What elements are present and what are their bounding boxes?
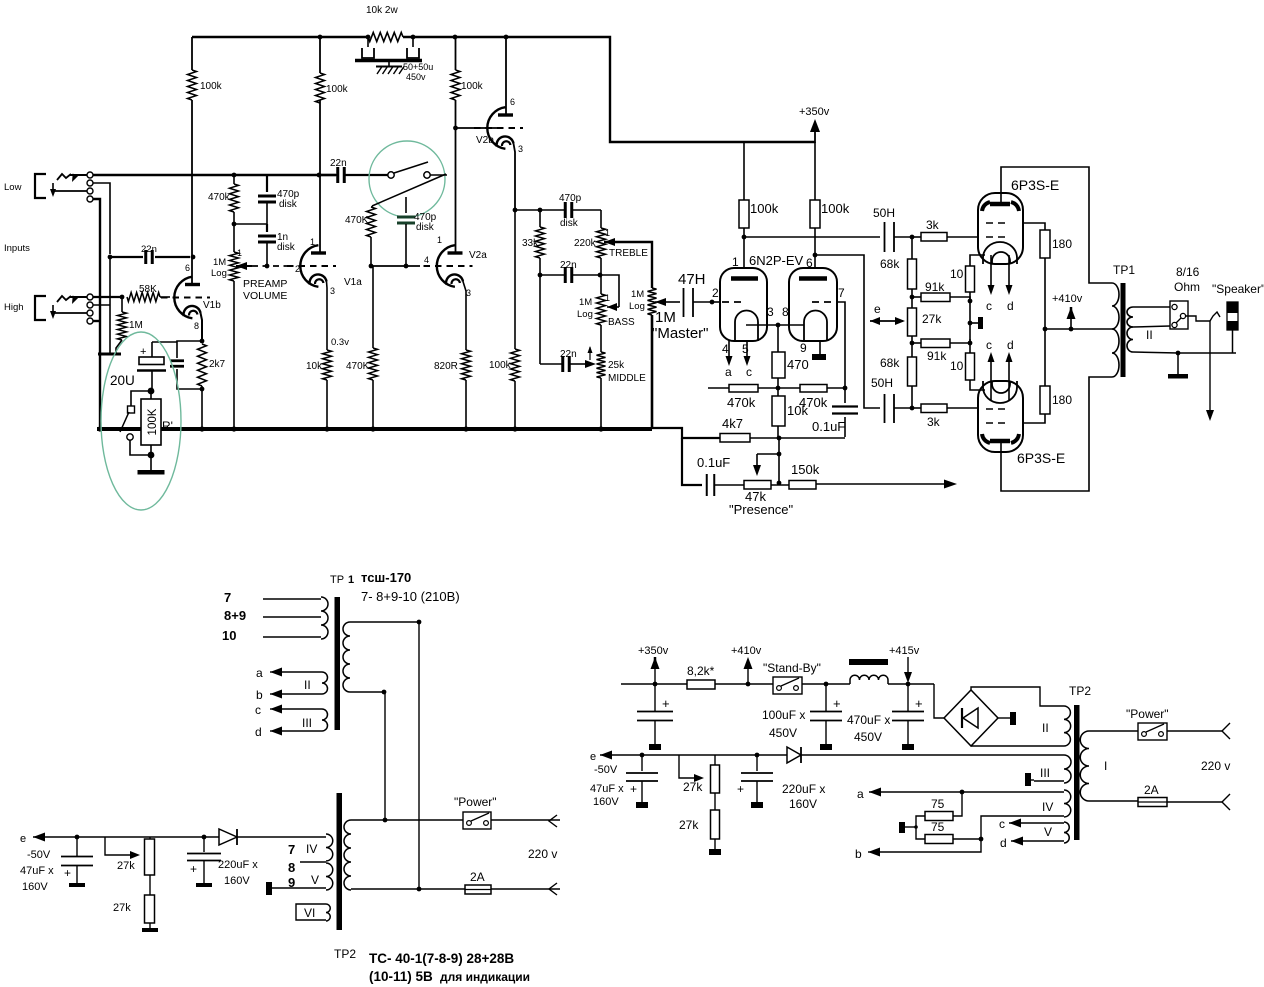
- svg-text:d: d: [1000, 836, 1007, 850]
- svg-text:a: a: [857, 787, 864, 801]
- svg-text:50H: 50H: [873, 206, 895, 220]
- svg-text:+350v: +350v: [799, 106, 830, 118]
- resistor 8,2k*: [687, 680, 715, 689]
- svg-text:+415v: +415v: [889, 645, 920, 657]
- capacitor 47uF left: [75, 835, 80, 840]
- wire V1a cathode: [326, 282, 329, 351]
- svg-text:27k: 27k: [117, 860, 135, 872]
- capacitor 22n input: [108, 255, 113, 260]
- svg-text:disk: disk: [279, 199, 298, 210]
- wire speaker hot: [1186, 316, 1211, 321]
- svg-text:75: 75: [931, 797, 945, 811]
- svg-text:6N2P-EV: 6N2P-EV: [749, 253, 804, 268]
- potentiometer 47k Presence: [744, 481, 771, 490]
- wire PI cathodes: [746, 324, 804, 326]
- power +410v psu: [746, 682, 751, 687]
- svg-text:5: 5: [742, 342, 749, 356]
- wire mains hot psu: [1089, 730, 1138, 732]
- annotation ellipse (green): [101, 332, 181, 510]
- rectifier bridge: [934, 684, 944, 718]
- wire OT secondary top: [1133, 306, 1171, 308]
- svg-text:470K: 470K: [345, 215, 369, 226]
- svg-text:47uF x: 47uF x: [590, 783, 624, 795]
- svg-text:Log: Log: [577, 309, 593, 320]
- svg-text:III: III: [302, 716, 312, 730]
- potentiometer 25k MIDDLE: [597, 352, 606, 378]
- capacitor cathode bypass: [200, 339, 205, 344]
- svg-text:a: a: [725, 365, 732, 379]
- wire V1b cathode: [201, 313, 203, 341]
- svg-text:1: 1: [437, 235, 442, 245]
- winding V psu: [1064, 822, 1069, 843]
- svg-text:33k: 33k: [522, 238, 539, 249]
- svg-text:0.3v: 0.3v: [331, 337, 349, 348]
- svg-text:470K: 470K: [346, 361, 370, 372]
- svg-text:91k: 91k: [925, 280, 945, 294]
- svg-text:220uF x: 220uF x: [218, 859, 258, 871]
- potentiometer 27k psu: [679, 755, 694, 778]
- triode V1a: [300, 245, 318, 287]
- svg-text:10: 10: [950, 359, 964, 373]
- svg-text:160V: 160V: [789, 797, 817, 811]
- svg-text:180: 180: [1052, 237, 1072, 251]
- wire lower plate: [1001, 377, 1112, 491]
- svg-text:100k: 100k: [750, 201, 779, 216]
- winding II TP1 detail: [322, 672, 328, 694]
- svg-text:-50V: -50V: [594, 764, 618, 776]
- svg-text:Low: Low: [4, 182, 22, 193]
- svg-text:220k: 220k: [574, 238, 597, 249]
- svg-text:450V: 450V: [854, 730, 882, 744]
- capacitor 470p disk switch: [405, 197, 407, 213]
- core TP1 detail: [335, 597, 341, 730]
- svg-text:22n: 22n: [330, 158, 347, 169]
- resistor 10 lower cathode: [969, 323, 971, 343]
- wire V2b plate to rail: [505, 37, 507, 116]
- wire b arrow psu: [868, 848, 880, 857]
- svg-text:6: 6: [806, 256, 813, 270]
- wire presence feed: [652, 428, 720, 438]
- capacitor 470p disk treble: [540, 209, 565, 211]
- svg-text:58K: 58K: [139, 284, 157, 295]
- wire ground bus: [97, 427, 652, 431]
- switch mod: [131, 391, 151, 406]
- wire mains bottom: [351, 888, 560, 890]
- wire PI plate 1: [743, 142, 745, 200]
- wire V1a plate to 100k: [319, 100, 321, 254]
- svg-text:9: 9: [800, 341, 807, 355]
- resistor 10k V1a cathode: [323, 350, 332, 380]
- wire bass to middle: [600, 325, 602, 352]
- wire -50V rail psu: [621, 754, 1064, 756]
- svg-text:22n: 22n: [560, 349, 577, 360]
- wire presence wiper: [778, 438, 780, 485]
- capacitor 50H lower: [884, 394, 886, 423]
- wire V1b plate to 100k: [191, 100, 193, 284]
- ground (hatched): [388, 62, 390, 66]
- svg-text:4k7: 4k7: [722, 416, 743, 431]
- ground mod: [138, 470, 165, 475]
- svg-text:7: 7: [224, 590, 231, 605]
- resistor 75 upper: [953, 792, 962, 816]
- resistor 10 upper cathode: [970, 255, 985, 266]
- svg-text:75: 75: [931, 820, 945, 834]
- svg-text:"Stand-By": "Stand-By": [763, 661, 821, 675]
- triode V2b cathode follower: [487, 107, 505, 149]
- winding IV psu: [1064, 790, 1071, 817]
- potentiometer 27k left: [105, 837, 130, 855]
- svg-text:10k 2w: 10k 2w: [366, 5, 398, 16]
- winding 210V TP1 detail: [343, 622, 350, 692]
- resistor 180 lower: [1040, 386, 1050, 414]
- wire IV bottom psu: [880, 816, 1064, 852]
- switch Power psu: [1138, 723, 1167, 740]
- svg-text:6: 6: [510, 97, 515, 107]
- wire coupling lower: [813, 253, 818, 258]
- wire heater pin4: [728, 341, 730, 358]
- svg-text:d: d: [255, 725, 262, 739]
- wire left bias: [150, 836, 190, 838]
- svg-text:3: 3: [767, 305, 774, 319]
- capacitor 220uF psu: [755, 753, 760, 758]
- winding primary TP2 detail: [344, 820, 351, 890]
- wire bright junction: [232, 222, 237, 227]
- svg-text:1M: 1M: [129, 320, 143, 331]
- resistor 75 lower: [953, 838, 981, 840]
- capacitor 0.1uF presence: [706, 474, 708, 496]
- svg-text:22n: 22n: [560, 260, 577, 271]
- svg-text:10: 10: [950, 267, 964, 281]
- svg-text:+: +: [630, 782, 637, 796]
- triode V2a: [437, 245, 455, 287]
- wire NFB tap: [1209, 321, 1211, 412]
- wire to diode left: [190, 836, 219, 838]
- capacitor 100uF: [825, 684, 827, 711]
- wire B+ psu rail: [621, 683, 687, 685]
- svg-text:100k: 100k: [326, 84, 349, 95]
- svg-text:1: 1: [605, 228, 610, 238]
- jack J1 Low: [35, 174, 46, 198]
- svg-text:50H: 50H: [871, 376, 893, 390]
- svg-text:IV: IV: [306, 842, 317, 856]
- capacitor 470uF: [907, 684, 909, 711]
- svg-text:disk: disk: [560, 218, 579, 229]
- svg-text:Log: Log: [629, 301, 645, 312]
- svg-text:1M: 1M: [655, 309, 676, 326]
- winding V TP2 detail: [326, 863, 333, 890]
- wire volume wiper to V1a grid: [252, 265, 290, 267]
- junction V1b plate node: [191, 255, 196, 260]
- svg-text:c: c: [986, 299, 992, 313]
- svg-text:27k: 27k: [113, 902, 131, 914]
- jack J2 High: [35, 296, 46, 320]
- wire NFB to speaker: [816, 483, 947, 485]
- svg-text:для индикации: для индикации: [440, 970, 530, 984]
- wire V2a cathode: [463, 282, 466, 351]
- svg-text:8,2k*: 8,2k*: [687, 664, 715, 678]
- resistor 470k switch: [371, 206, 373, 207]
- svg-text:820R: 820R: [434, 361, 458, 372]
- svg-text:TREBLE: TREBLE: [609, 248, 648, 259]
- svg-text:V2a: V2a: [469, 250, 487, 261]
- svg-text:100k: 100k: [200, 81, 223, 92]
- capacitor 22n coupling: [336, 167, 339, 183]
- resistor 58K: [127, 293, 160, 302]
- svg-text:160V: 160V: [593, 796, 619, 808]
- svg-text:"Power": "Power": [1126, 707, 1169, 721]
- svg-text:+: +: [64, 866, 71, 880]
- terminal heater ground psu: [916, 816, 925, 839]
- svg-text:2k7: 2k7: [209, 359, 226, 370]
- svg-text:VI: VI: [304, 906, 315, 920]
- wire heater pin5: [746, 341, 748, 358]
- svg-text:+350v: +350v: [638, 645, 669, 657]
- resistor 150k NFB: [771, 484, 789, 486]
- svg-text:100K: 100K: [147, 408, 159, 435]
- svg-text:6: 6: [185, 263, 190, 273]
- svg-text:d: d: [1007, 299, 1014, 313]
- wire upper heaters: [990, 255, 992, 287]
- resistor 100k PI plate 2: [810, 200, 820, 228]
- svg-text:7: 7: [288, 842, 295, 857]
- wire pin7 to NFB: [837, 302, 845, 388]
- wire Low contact to 22n: [93, 183, 110, 254]
- wire diode to TP2: [237, 836, 326, 838]
- triode V1b: [160, 296, 170, 298]
- power +410v OT center tap: [1045, 328, 1112, 330]
- wire High sleeve down: [93, 320, 100, 322]
- wire V1a plate coupling: [317, 173, 322, 178]
- tube V3 6P3S-E upper: [978, 193, 1023, 264]
- svg-text:V: V: [311, 873, 319, 887]
- resistor 470k volume top: [232, 173, 237, 178]
- svg-text:8+9: 8+9: [224, 608, 246, 623]
- svg-text:V1a: V1a: [344, 277, 362, 288]
- resistor 10k tail: [772, 396, 785, 426]
- capacitor 50H upper: [884, 222, 886, 252]
- svg-text:TP: TP: [330, 574, 344, 586]
- wire a arrow psu: [869, 788, 881, 797]
- wire OT secondary bottom: [1133, 352, 1236, 353]
- svg-text:+410v: +410v: [1052, 293, 1083, 305]
- wire 20U tap: [152, 341, 177, 343]
- svg-text:91k: 91k: [927, 349, 947, 363]
- junction 20U to R: [148, 388, 155, 395]
- svg-text:150k: 150k: [791, 462, 820, 477]
- junction V2b cathode node: [513, 208, 518, 213]
- svg-text:1: 1: [237, 248, 242, 258]
- wire V2a grid: [369, 264, 374, 269]
- wire mains to chevron: [1167, 730, 1222, 732]
- resistor 100k V1b plate: [188, 70, 197, 100]
- svg-text:a: a: [256, 666, 263, 680]
- resistor 100k PI plate 1: [739, 200, 749, 228]
- svg-text:7- 8+9-10 (210В): 7- 8+9-10 (210В): [361, 589, 460, 604]
- wire V2b cathode down: [514, 144, 516, 211]
- svg-text:b: b: [256, 688, 263, 702]
- capacitor filter 350v: [654, 684, 656, 711]
- resistor 1M input: [120, 295, 125, 300]
- svg-text:220 v: 220 v: [1201, 759, 1230, 773]
- svg-text:+: +: [662, 696, 670, 711]
- svg-text:6P3S-E: 6P3S-E: [1017, 450, 1065, 466]
- svg-text:20U: 20U: [110, 373, 135, 388]
- svg-text:1M: 1M: [631, 289, 644, 300]
- svg-text:ТС- 40-1(7-8-9) 28+28В: ТС- 40-1(7-8-9) 28+28В: [369, 951, 514, 966]
- resistor 27k psu lower: [714, 793, 716, 810]
- svg-text:"Master": "Master": [652, 325, 709, 342]
- svg-text:8: 8: [194, 321, 199, 331]
- potentiometer 1M Log BASS: [597, 294, 606, 325]
- svg-text:10: 10: [222, 628, 236, 643]
- svg-text:disk: disk: [416, 222, 435, 233]
- capacitor 0.1uF NFB: [844, 388, 846, 403]
- diode left: [219, 829, 237, 845]
- wire upper screen: [1023, 223, 1045, 230]
- svg-text:100k: 100k: [489, 360, 512, 371]
- svg-text:1: 1: [348, 574, 354, 586]
- wire mains top: [351, 819, 560, 821]
- winding III psu: [1064, 755, 1071, 783]
- svg-text:7: 7: [838, 286, 845, 300]
- wire bridge to winding II: [971, 687, 1064, 706]
- resistor 470k NFB right: [778, 387, 800, 389]
- capacitor 22n bass: [538, 273, 543, 278]
- svg-text:180: 180: [1052, 393, 1072, 407]
- svg-text:BASS: BASS: [608, 317, 635, 328]
- svg-text:27k: 27k: [922, 312, 942, 326]
- wire standby out: [802, 683, 850, 685]
- fuse 2A left: [465, 885, 491, 894]
- svg-text:+: +: [737, 782, 744, 796]
- wire PI plate 2: [814, 142, 816, 200]
- svg-text:470: 470: [787, 357, 809, 372]
- annotation circle (green): [369, 141, 445, 217]
- svg-text:IV: IV: [1042, 800, 1053, 814]
- svg-text:1M: 1M: [213, 257, 226, 268]
- svg-text:3k: 3k: [927, 415, 941, 429]
- resistor 3k lower grid: [912, 407, 921, 409]
- svg-text:VOLUME: VOLUME: [243, 290, 287, 302]
- svg-text:10k: 10k: [787, 403, 808, 418]
- svg-text:+: +: [190, 862, 197, 876]
- svg-text:220 v: 220 v: [528, 847, 557, 861]
- wire input Low: [70, 174, 87, 176]
- switch S1: [388, 172, 394, 178]
- svg-text:8: 8: [288, 860, 295, 875]
- winding VI TP2 detail: [326, 904, 330, 921]
- svg-text:0.1uF: 0.1uF: [697, 455, 730, 470]
- capacitor 47uF psu: [640, 753, 645, 758]
- junction R bottom: [148, 452, 155, 459]
- svg-text:d: d: [1007, 338, 1014, 352]
- svg-text:TP2: TP2: [1069, 684, 1091, 698]
- svg-text:тсш-170: тсш-170: [361, 570, 411, 585]
- wire presence bottom: [682, 438, 702, 485]
- wire B+ top rail: [192, 36, 368, 38]
- winding I psu: [1080, 731, 1089, 801]
- junction B+ rail: [318, 35, 323, 40]
- ground speaker: [1177, 353, 1179, 374]
- svg-text:160V: 160V: [224, 875, 250, 887]
- wire TP1 210V to mains: [384, 692, 386, 820]
- inductor filter choke: [849, 659, 888, 665]
- resistor 91k upper: [912, 296, 921, 298]
- resistor 68k lower: [908, 357, 917, 386]
- capacitor 470p disk bright: [266, 175, 268, 192]
- resistor 180 upper: [1040, 230, 1050, 258]
- svg-text:Ohm: Ohm: [1174, 280, 1200, 294]
- svg-text:II: II: [1146, 328, 1153, 342]
- terminal bridge out: [998, 717, 1010, 719]
- svg-text:3k: 3k: [926, 218, 940, 232]
- svg-text:b: b: [855, 847, 862, 861]
- wire OT secondary tap: [1133, 326, 1170, 327]
- svg-text:"Power": "Power": [454, 795, 497, 809]
- svg-text:"Presence": "Presence": [729, 502, 794, 517]
- svg-text:Log: Log: [211, 268, 227, 279]
- svg-text:25k: 25k: [608, 360, 625, 371]
- capacitor 1n disk: [266, 224, 268, 232]
- wire treble wiper to master: [604, 238, 615, 246]
- svg-text:TP2: TP2: [334, 947, 356, 961]
- svg-text:Inputs: Inputs: [4, 243, 30, 254]
- junction tail node: [777, 378, 779, 396]
- svg-text:4: 4: [722, 342, 729, 356]
- diode psu: [787, 747, 801, 763]
- wire lower screen: [1023, 414, 1045, 423]
- terminal pin9 ground: [819, 341, 821, 354]
- capacitor 22n middle: [539, 275, 541, 364]
- svg-text:68k: 68k: [880, 356, 900, 370]
- connector speaker: [1227, 302, 1238, 330]
- svg-text:50+50u: 50+50u: [403, 62, 433, 72]
- tube U1 6N2P-EV triode B: [789, 268, 837, 341]
- wire V2a plate from 100k: [455, 100, 457, 254]
- resistor 470k NFB left: [708, 387, 729, 389]
- resistor 10k 2w: [368, 33, 403, 42]
- svg-text:MIDDLE: MIDDLE: [608, 373, 646, 384]
- capacitor 50+50u 450v: [367, 37, 369, 47]
- svg-text:c: c: [746, 365, 752, 379]
- resistor 820R: [462, 350, 471, 380]
- resistor 2k7: [198, 344, 207, 386]
- svg-text:4: 4: [424, 255, 429, 265]
- mains entry left: [549, 815, 557, 827]
- wire -50V rail left: [33, 833, 45, 842]
- resistor 100k V2a plate: [451, 70, 460, 100]
- capacitor 220uF left: [202, 835, 207, 840]
- core TP2 detail: [337, 793, 343, 930]
- test point upper: [969, 301, 971, 323]
- resistor 470 tail: [777, 325, 779, 352]
- svg-text:V: V: [1044, 825, 1052, 839]
- svg-text:c: c: [999, 817, 1005, 831]
- svg-text:c: c: [255, 703, 261, 717]
- svg-text:450v: 450v: [406, 72, 426, 82]
- fuse 2A psu: [1138, 798, 1167, 807]
- wire mains neutral psu: [1089, 800, 1138, 802]
- svg-text:I: I: [1104, 759, 1107, 773]
- svg-text:68k: 68k: [880, 257, 900, 271]
- svg-text:e: e: [874, 302, 881, 316]
- wire 210V top: [350, 621, 419, 623]
- winding III TP1 detail: [322, 709, 328, 731]
- svg-text:450V: 450V: [769, 726, 797, 740]
- svg-text:100k: 100k: [821, 201, 850, 216]
- svg-text:+: +: [915, 696, 923, 711]
- svg-text:470uF x: 470uF x: [847, 713, 890, 727]
